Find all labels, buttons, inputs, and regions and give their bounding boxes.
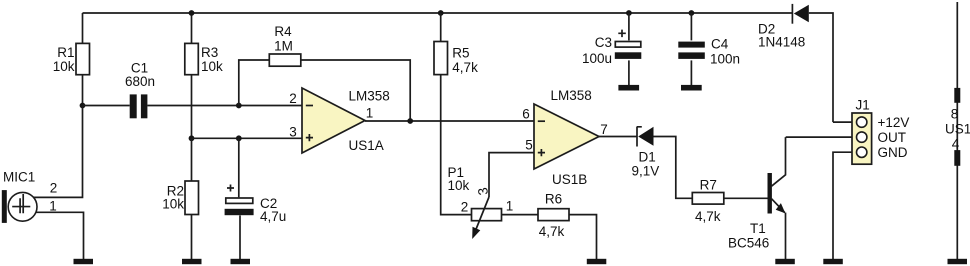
wire R6 to ground [569,215,597,259]
svg-text:R6: R6 [545,192,562,207]
resistor R5 [434,42,478,76]
pin 4 US1 power stub [954,150,960,166]
svg-text:4,7k: 4,7k [539,224,565,239]
svg-text:10k: 10k [162,197,184,212]
junction dot rail/C3 [626,10,632,16]
svg-text:R1: R1 [57,45,74,60]
svg-text:2: 2 [50,181,58,196]
svg-text:OUT: OUT [878,130,907,145]
node A junction dot [80,103,86,109]
wire GND pin to ground [833,152,852,259]
wire P1 wiper to US1B pin 5 [489,153,534,197]
svg-text:1: 1 [506,199,514,214]
wire C3 top lead [628,13,630,40]
IC US1 power labels [945,107,970,152]
svg-text:R7: R7 [700,177,717,192]
transistor T1 [728,137,786,259]
svg-text:10k: 10k [448,178,470,193]
node B junction dot R3/R2 [189,135,195,141]
svg-text:2: 2 [461,200,469,215]
svg-text:T1: T1 [750,221,766,236]
svg-text:680n: 680n [125,74,155,89]
svg-text:D1: D1 [639,150,656,165]
op-amp US1B [522,88,608,187]
svg-text:R4: R4 [274,24,292,39]
svg-text:C4: C4 [711,37,729,52]
wire D1 to R7 [654,137,693,199]
svg-text:9,1V: 9,1V [632,164,660,179]
wire D2 anode to +12V pin [809,13,833,122]
wire R7 to T1 base [724,197,768,199]
wire rail drop to R5 [440,13,442,42]
svg-text:1N4148: 1N4148 [758,35,805,50]
wire US1 power pin rail [956,2,958,259]
svg-text:J1: J1 [856,98,870,113]
wire rail drop to R3 [191,13,193,43]
svg-text:4,7k: 4,7k [452,60,478,75]
wire C4 bottom lead [690,60,692,85]
ground (C4) [681,85,702,91]
wire C4 top lead [690,13,692,40]
svg-text:6: 6 [522,106,530,121]
wire C2 top lead [238,138,240,197]
ground (MIC1) [74,259,94,264]
resistor R2 [162,181,198,215]
diode D2 [758,4,809,50]
pin 8 US1 power stub [954,88,960,103]
svg-text:4,7u: 4,7u [260,209,286,224]
svg-text:LM358: LM358 [551,88,592,103]
wire node A down to MIC1 pin 2 [34,106,83,198]
ground (C3) [618,85,639,91]
capacitor C3 [582,30,641,66]
connector J1 [852,98,909,165]
wire MIC1 pin 1 to ground [36,212,84,259]
svg-text:100u: 100u [582,51,612,66]
ground (T1 emitter) [775,259,795,264]
svg-text:2: 2 [289,91,297,106]
wire feedback up to R4 [239,60,269,106]
diode D1 zener [632,127,660,179]
svg-text:7: 7 [600,122,608,137]
svg-text:US1B: US1B [552,172,587,187]
svg-text:LM358: LM358 [349,89,390,104]
ground (C2) [231,259,251,264]
junction dot rail/C4 [689,10,695,16]
resistor R4 [269,24,301,66]
svg-text:BC546: BC546 [728,236,769,251]
ground (R2) [182,259,202,264]
junction dot rail/R5 [438,10,444,16]
wire C2 bottom lead [239,215,241,259]
svg-text:R3: R3 [201,45,218,60]
svg-text:4,7k: 4,7k [695,209,721,224]
svg-text:+12V: +12V [878,115,910,130]
wire rail drop to R1 [82,13,84,43]
wire C3 bottom lead [628,60,630,85]
svg-text:10k: 10k [201,59,223,74]
op-amp US1A [289,88,390,153]
svg-text:1: 1 [49,199,57,214]
svg-text:8: 8 [951,107,959,122]
svg-text:1M: 1M [274,38,293,53]
wire US1A output to US1B pin 6 [365,120,534,122]
junction dot rail/R3 [189,10,195,16]
svg-text:C3: C3 [595,35,612,50]
resistor R1 [53,43,90,74]
potentiometer P1 [448,165,514,239]
wire R5 bottom lead down to P1 [441,75,472,215]
resistor R6 [538,192,569,240]
svg-text:10k: 10k [53,59,75,74]
svg-text:5: 5 [525,138,533,153]
wire R3 bottom lead crossing to lower node [191,75,193,139]
svg-text:US1A: US1A [349,138,384,153]
svg-text:R5: R5 [452,46,469,61]
svg-text:US1: US1 [945,122,970,137]
ground (J1 GND) [823,259,843,264]
svg-text:GND: GND [878,145,908,160]
wire R2 leads [191,138,193,259]
wire OUT pin to T1 collector [786,136,862,138]
wire R4 right to output node [301,60,410,121]
ground (R6) [587,259,607,264]
capacitor C4 [678,37,740,67]
wire +12V pin to J1 [833,121,852,123]
svg-text:1: 1 [366,106,374,121]
junction dot C2 tap [236,135,242,141]
wire node B to US1A pin 3 [192,137,303,139]
ground (US1 pin 4) [948,259,968,264]
capacitor C2 [225,185,287,225]
wire C1 to US1A pin 2 [147,105,302,107]
junction dot output node [407,118,413,124]
microphone MIC1 [2,170,37,223]
resistor R3 [185,43,223,74]
junction dot feedback tap on pin 2 wire [236,103,242,109]
wire R1 bottom lead [82,75,84,106]
wire US1B output to D1 [599,136,637,138]
wire P1 pin 1 to R6 [502,214,539,216]
svg-text:MIC1: MIC1 [3,170,35,185]
resistor R7 [692,177,724,224]
capacitor C1 [125,61,155,119]
wire top supply rail [83,12,793,14]
svg-text:3: 3 [289,125,297,140]
svg-text:4: 4 [952,137,960,152]
svg-text:100n: 100n [710,52,740,67]
wire node A to C1 [83,105,130,107]
